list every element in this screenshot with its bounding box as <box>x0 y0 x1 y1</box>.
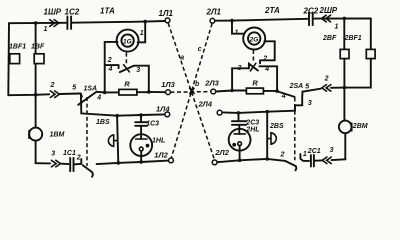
svg-text:4: 4 <box>281 93 286 100</box>
svg-text:1ШР: 1ШР <box>44 8 62 17</box>
svg-text:1: 1 <box>335 24 339 31</box>
svg-text:2BS: 2BS <box>269 123 284 130</box>
svg-text:2С1: 2С1 <box>307 148 321 155</box>
svg-text:1Л2: 1Л2 <box>154 151 168 160</box>
svg-text:2SA: 2SA <box>289 83 304 90</box>
svg-text:2Л4: 2Л4 <box>198 99 213 108</box>
svg-text:3: 3 <box>330 147 334 154</box>
svg-text:2HL: 2HL <box>245 127 259 134</box>
svg-text:b: b <box>195 81 200 88</box>
svg-text:2: 2 <box>262 55 267 62</box>
svg-text:3: 3 <box>136 67 140 74</box>
svg-text:5: 5 <box>305 83 309 90</box>
svg-text:2: 2 <box>280 151 285 158</box>
svg-text:4: 4 <box>264 66 269 73</box>
svg-text:1: 1 <box>303 151 307 158</box>
svg-text:2Л3: 2Л3 <box>204 78 219 87</box>
svg-text:a: a <box>180 55 184 62</box>
svg-text:2С3: 2С3 <box>245 120 259 127</box>
svg-text:1С1: 1С1 <box>63 150 76 157</box>
svg-text:1BS: 1BS <box>96 119 110 126</box>
svg-text:2: 2 <box>107 57 112 64</box>
svg-text:1ВМ: 1ВМ <box>50 132 65 139</box>
svg-text:1BF: 1BF <box>31 44 45 51</box>
svg-text:1: 1 <box>140 30 144 37</box>
svg-text:R: R <box>124 79 130 88</box>
svg-text:1HL: 1HL <box>152 138 165 145</box>
svg-text:1G: 1G <box>123 38 132 45</box>
svg-text:3: 3 <box>51 151 55 158</box>
svg-text:3: 3 <box>238 65 242 72</box>
svg-text:1С3: 1С3 <box>146 120 159 127</box>
svg-text:2ТА: 2ТА <box>264 6 280 15</box>
svg-text:2BF1: 2BF1 <box>344 35 362 42</box>
svg-text:2BF: 2BF <box>322 35 337 42</box>
svg-text:1: 1 <box>44 26 48 33</box>
svg-text:1Л4: 1Л4 <box>156 104 170 113</box>
svg-text:2G: 2G <box>249 36 259 43</box>
svg-text:1Л3: 1Л3 <box>161 80 175 89</box>
svg-text:1BF1: 1BF1 <box>9 44 26 51</box>
svg-text:5: 5 <box>72 84 76 91</box>
svg-text:2Л1: 2Л1 <box>206 8 222 17</box>
svg-text:2ВМ: 2ВМ <box>352 123 368 130</box>
svg-text:R: R <box>252 78 258 87</box>
svg-text:1Л1: 1Л1 <box>159 9 174 18</box>
svg-text:2С2: 2С2 <box>303 7 319 16</box>
svg-text:1ТА: 1ТА <box>100 7 115 16</box>
svg-text:2: 2 <box>324 75 329 82</box>
svg-text:2: 2 <box>76 154 81 161</box>
svg-text:4: 4 <box>96 95 101 102</box>
svg-text:2ШР: 2ШР <box>319 6 338 15</box>
svg-text:3: 3 <box>308 100 312 107</box>
svg-text:1SA: 1SA <box>84 85 98 92</box>
svg-text:c: c <box>198 46 202 53</box>
svg-text:2Л2: 2Л2 <box>214 148 229 157</box>
svg-text:2: 2 <box>50 82 55 89</box>
svg-text:1: 1 <box>235 29 239 36</box>
svg-text:4: 4 <box>108 66 113 73</box>
svg-text:1С2: 1С2 <box>65 8 80 17</box>
